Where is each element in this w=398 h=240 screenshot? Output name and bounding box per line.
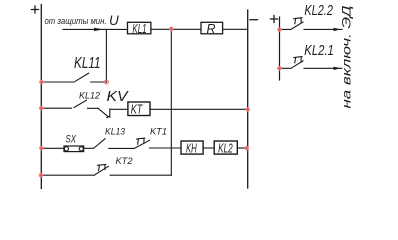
svg-text:KL2.1: KL2.1 [304,42,334,59]
label minus (right negative terminal) [250,19,258,21]
contact KL13 [95,139,134,149]
wire drop to KL11 [105,29,107,82]
wire SX to KL13 [84,147,94,149]
svg-text:KV: KV [107,88,130,105]
contact KT1 [134,140,181,148]
contact KL12 [41,100,86,108]
negative bus (right vertical) [247,10,249,188]
arrow to ЭД (bottom) [334,67,341,70]
svg-text:KL13: KL13 [105,127,125,137]
svg-text:KL11: KL11 [74,55,101,72]
svg-text:KT: KT [131,101,143,116]
node KL11 left [39,80,44,85]
node KL12 left [39,106,44,111]
contact KT2 [41,166,171,175]
fuse SX [64,146,84,152]
wire KH to KL2 [203,147,214,149]
node KL2.2 [277,27,282,32]
svg-text:U: U [109,13,119,28]
wire KT to negative bus [150,108,248,110]
contact KL2.2 [280,22,343,29]
svg-text:KL2.2: KL2.2 [304,2,333,19]
wire mid vertical (KT2 row to top node) [170,29,172,175]
wire R to negative bus [223,28,248,30]
wire KL1 to node [151,28,201,30]
wire SX row from bus [41,147,64,149]
relay coil KL1 [128,22,151,34]
svg-text:KT1: KT1 [150,127,167,137]
relay coil KH [181,141,203,154]
contact KL2.1 [280,61,343,68]
time relay coil KT [128,102,150,116]
node KT row right [245,107,250,112]
svg-text:KH: KH [186,140,197,155]
svg-text:KL1: KL1 [132,21,146,36]
svg-text:KL2: KL2 [218,140,233,155]
arrow to ЭД (top) [334,28,341,31]
label + (left positive terminal) [32,6,39,13]
node KT2 left [39,173,44,178]
svg-text:KL12: KL12 [79,91,100,101]
positive bus (left vertical) [40,5,42,189]
svg-text:на включ. ЭД: на включ. ЭД [340,5,354,109]
relay coil KL2 [214,141,237,154]
contact KL11 [42,73,107,82]
arrow signal direction [94,28,103,31]
wire KL2 to negative bus [237,147,247,149]
node KL2.1 [277,66,282,71]
wire input from protection [63,28,128,30]
svg-text:R: R [207,22,216,36]
resistor R [201,22,223,34]
positive stub bus (right section) [279,17,281,80]
svg-text:SX: SX [66,134,77,146]
label + (right positive terminal) [271,16,278,23]
svg-text:от защиты мин.: от защиты мин. [45,16,107,26]
node top junction [169,27,174,32]
contact KV [88,108,128,117]
svg-text:KT2: KT2 [116,156,133,166]
node KL11 right (ring) [105,80,109,84]
node KL2 row right [245,146,250,151]
node SX left [39,146,44,151]
